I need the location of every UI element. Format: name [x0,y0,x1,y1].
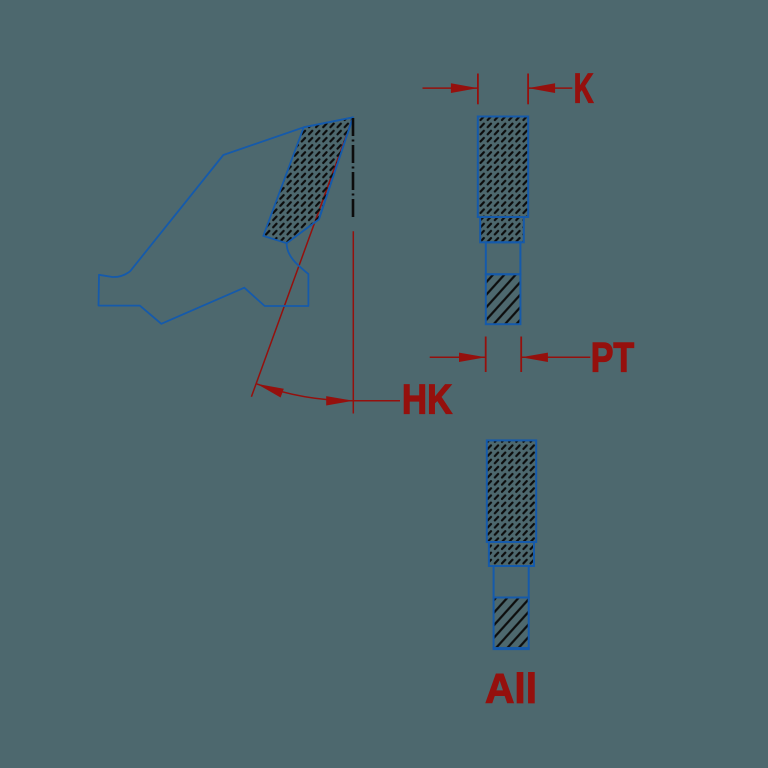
bottom front view: hatched rect S4 [494,598,529,649]
angle dimension arc HK [257,384,353,401]
front view: hatched rect R4 (plate section) [486,274,521,324]
label All [485,665,537,712]
dimension PT: arrowhead left [459,353,486,362]
carbide tip, hatched (side view) [263,117,353,243]
svg-text:PT: PT [591,334,634,381]
dimension PT: lines [430,356,591,358]
label HK [402,376,453,423]
HK leader line [353,400,400,402]
dimension PT: arrowhead right [521,353,548,362]
vertical reference line (red) [352,231,354,413]
dimension K: arrowhead right [528,83,555,93]
label K [574,66,594,112]
dimension K: lines [423,87,573,89]
dimension PT: extension ticks [486,337,522,373]
bottom front view: plain rect S3 [494,566,529,598]
front view: kerf section K, dense hatch rect R1 [478,117,528,218]
arc arrowhead right [326,396,353,405]
hook angle reference line (rake face extension, red) [251,117,353,396]
front view: plain rect R3 (plate, no hatch) [486,242,521,274]
front view: rect R2 (tip lower part) [480,217,524,242]
bottom front view: S4 bottom edge (thick) [493,647,530,650]
centerline (black dash-dot) [352,118,355,218]
bottom front view: rect S2 [489,542,534,566]
tooth body outline (side view, blue) [99,117,353,323]
svg-text:K: K [574,66,594,112]
label PT [591,334,634,381]
dimension K: arrowhead left [451,83,478,93]
bottom front view: dense hatch rect S1 [487,440,536,542]
arc arrowhead left [257,384,284,398]
dimension K: extension ticks [478,74,528,105]
svg-text:HK: HK [402,376,453,423]
svg-text:All: All [485,665,537,712]
